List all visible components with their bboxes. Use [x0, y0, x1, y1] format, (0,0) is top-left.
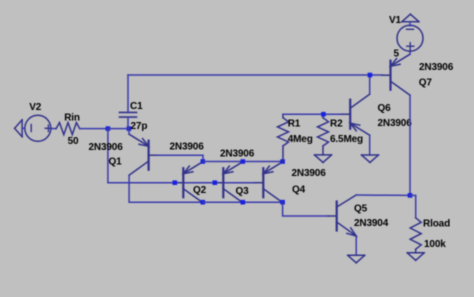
wire Q6 collector up to top wire [369, 75, 371, 93]
transistor Q3 (PNP) [215, 162, 243, 203]
junction Q4 emitter node (R1 bottom) [280, 159, 285, 164]
svg-text:Rin: Rin [64, 112, 80, 123]
wire emitter rail Q2 to Q3 [203, 161, 243, 163]
wire V1 ground stub [409, 22, 411, 26]
resistor R2 [318, 114, 329, 155]
junction Q6 collector / top wire [368, 73, 373, 78]
resistor R1 [278, 114, 289, 161]
svg-text:2N3906: 2N3906 [419, 62, 454, 73]
wire Q6 emitter down to ground [369, 135, 371, 155]
wire Q7 emitter to V1 [409, 51, 411, 55]
wire collector rail Q3 to Q4 [243, 201, 283, 203]
ground at V2 (rotated left) [15, 120, 23, 137]
svg-text:V2: V2 [29, 102, 42, 113]
svg-text:Q2: Q2 [193, 185, 207, 196]
wire R1 top to R2 top to Q6 base [283, 113, 342, 115]
resistor Rin [56, 123, 80, 135]
svg-text:Q6: Q6 [378, 103, 392, 114]
wire base rail Q3 to Q4 [215, 182, 255, 184]
wire node B to Q1 emitter [128, 129, 130, 135]
junction Q4 collector node [280, 200, 285, 205]
resistor Rload [410, 218, 421, 253]
ground at Q6 emitter [362, 155, 379, 163]
wire Rin to node A [80, 128, 108, 130]
svg-text:Q1: Q1 [109, 157, 123, 168]
junction Q3 base [213, 180, 218, 185]
wire Q1 base to Q2 emitter node [157, 155, 203, 161]
junction node B (C1 bottom / Q1 emitter) [127, 126, 132, 131]
svg-text:5: 5 [394, 48, 400, 59]
ground at Q5 emitter [348, 255, 365, 262]
junction Q3 emitter node [241, 159, 246, 164]
svg-text:Q7: Q7 [419, 77, 433, 88]
svg-text:R2: R2 [330, 118, 343, 129]
transistor Q1 (PNP, mirrored) [129, 134, 157, 175]
junction output node [408, 193, 413, 198]
svg-text:2N3904: 2N3904 [354, 218, 389, 229]
svg-text:27p: 27p [131, 121, 148, 132]
wire node A to node B [108, 128, 129, 130]
junction Q3 collector node [241, 200, 246, 205]
wire V2 to Rin [51, 128, 56, 130]
svg-text:2N3906: 2N3906 [89, 142, 124, 153]
voltage source V2 [25, 115, 52, 141]
transistor Q5 (NPN) [328, 195, 356, 236]
wire emitter rail Q3 to Q4 [243, 161, 283, 163]
wire output node to Rload [410, 195, 416, 217]
svg-text:R1: R1 [288, 118, 301, 129]
svg-text:2N3906: 2N3906 [378, 118, 413, 129]
svg-text:Q4: Q4 [292, 185, 306, 196]
ground at R2 bottom [315, 155, 332, 163]
junction R2 top [321, 112, 326, 117]
transistor Q6 (PNP, flipped vertically) [342, 94, 370, 135]
wire Q7 collector down right side [409, 95, 411, 195]
junction Q2 emitter node [201, 159, 206, 164]
svg-text:100k: 100k [424, 239, 446, 250]
transistor Q4 (PNP) [255, 162, 283, 203]
capacitor C1 [120, 75, 137, 129]
transistor Q7 (PNP) [382, 54, 410, 95]
svg-text:V1: V1 [389, 15, 402, 26]
wire Q4 collector to Q5 base [283, 202, 329, 216]
svg-text:50: 50 [68, 136, 79, 147]
svg-text:Q5: Q5 [354, 203, 368, 214]
wire C1 top to Q7 base [128, 74, 382, 76]
svg-text:Rload: Rload [423, 219, 450, 230]
svg-text:2N3906: 2N3906 [170, 141, 205, 152]
transistor Q2 (PNP) [175, 162, 203, 203]
wire base rail Q2 to Q3 [175, 182, 215, 184]
svg-text:2N3906: 2N3906 [220, 148, 255, 159]
svg-text:Q3: Q3 [236, 186, 250, 197]
wire Q1 collector down to collector rail [129, 175, 203, 202]
wire Q5 emitter down to ground [355, 237, 357, 255]
wire Q5 collector to output node [356, 194, 410, 196]
svg-text:C1: C1 [130, 101, 143, 112]
junction Q2 collector node [201, 200, 206, 205]
ground at V1 top (rotated up) [402, 14, 419, 22]
wire collector rail Q2 to Q3 [203, 201, 243, 203]
svg-text:2N3906: 2N3906 [292, 168, 327, 179]
wire V2 ground stub [22, 127, 25, 129]
junction Q2 base [173, 180, 178, 185]
ground at Rload bottom [407, 253, 424, 260]
svg-text:4Meg: 4Meg [288, 134, 313, 145]
wire node A down to base rail [108, 129, 175, 183]
svg-text:6.5Meg: 6.5Meg [330, 134, 363, 145]
junction node A [106, 126, 111, 131]
voltage source V1 [397, 25, 423, 51]
